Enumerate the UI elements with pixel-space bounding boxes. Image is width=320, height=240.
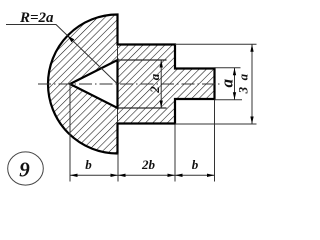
2a extension lines from triangle mouth — [118, 59, 167, 61]
a dimension line — [234, 68, 236, 100]
svg-text:b: b — [192, 157, 199, 172]
radius arrowhead on arc — [67, 36, 74, 43]
right top extension line (block top) — [175, 43, 257, 45]
arrows bottom: span b right — [175, 174, 183, 177]
bottom dimension line — [70, 174, 215, 176]
extension line from apex down — [69, 84, 71, 182]
3a dimension line — [251, 44, 253, 124]
extension line from block right bottom — [174, 125, 176, 182]
extension line from shaft end bottom — [214, 100, 216, 182]
part body: dome + flange block + shaft, hatched section — [48, 15, 215, 154]
2a dimension line — [160, 60, 162, 108]
arrows bottom: span 2b — [118, 174, 126, 177]
figure number circle — [8, 152, 44, 185]
conical recess (white triangle) — [70, 60, 118, 108]
horizontal centerline (dash-dot) — [38, 83, 220, 85]
radius leader: horizontal under text then diagonal to circle center — [6, 25, 118, 85]
svg-text:b: b — [85, 157, 92, 172]
svg-text:a: a — [217, 78, 236, 87]
thin joint line of chord inside section — [117, 45, 119, 123]
svg-text:R=2a: R=2a — [19, 10, 54, 26]
svg-text:9: 9 — [19, 158, 30, 182]
right bottom extension line (block bottom) — [175, 123, 257, 125]
a extension lines (shaft) — [215, 67, 241, 69]
extension line from chord bottom — [117, 154, 119, 182]
svg-text:2b: 2b — [141, 157, 156, 172]
arrows bottom: span b — [70, 174, 78, 177]
